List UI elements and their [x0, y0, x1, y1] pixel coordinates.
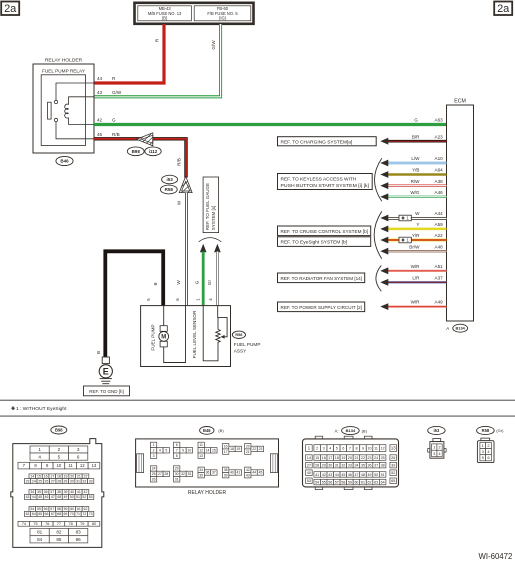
svg-text:34: 34: [199, 468, 203, 472]
wire label R: [155, 38, 160, 42]
svg-text:44: 44: [335, 473, 339, 477]
svg-text:REF. TO CRUISE CONTROL SYSTEM: REF. TO CRUISE CONTROL SYSTEM [b]: [281, 229, 369, 235]
svg-text:L/W: L/W: [411, 156, 420, 161]
wire L/R A37: [380, 275, 446, 285]
svg-text:45: 45: [97, 132, 103, 137]
svg-text:53: 53: [89, 495, 93, 499]
svg-text:A44: A44: [435, 211, 444, 216]
wire motor top to pin 5: [163, 306, 165, 326]
svg-text:10: 10: [187, 449, 191, 453]
svg-text:4: 4: [159, 449, 161, 453]
ECM box: [447, 99, 474, 322]
svg-text:B98: B98: [55, 427, 63, 432]
svg-text:51: 51: [381, 473, 385, 477]
svg-text:45: 45: [341, 473, 345, 477]
page label 2a top-right: [494, 2, 512, 16]
svg-text:15: 15: [315, 456, 319, 460]
svg-text:42: 42: [246, 468, 250, 472]
svg-text:29: 29: [322, 463, 326, 467]
svg-text:1: 1: [153, 443, 155, 447]
connector oval i112: [145, 147, 161, 156]
svg-text:A46: A46: [435, 190, 444, 195]
separator line lower: [0, 415, 515, 417]
connector B134 labels: [334, 427, 367, 435]
svg-text:7: 7: [349, 446, 351, 450]
svg-text:R58: R58: [165, 187, 174, 192]
svg-text:i112: i112: [149, 149, 158, 154]
svg-text:R58: R58: [235, 333, 242, 337]
fuse box block (M/B and F/B): [135, 3, 254, 24]
svg-text:13: 13: [92, 463, 97, 468]
svg-text:15: 15: [212, 449, 216, 453]
svg-text:23: 23: [26, 479, 30, 483]
svg-text:REF. TO FUEL GAUGE: REF. TO FUEL GAUGE: [205, 183, 210, 230]
wire label G: [194, 280, 199, 284]
svg-text:23: 23: [368, 456, 372, 460]
svg-text:37: 37: [212, 471, 216, 475]
svg-text:24: 24: [32, 479, 36, 483]
ref box eyesight: [278, 237, 371, 247]
svg-text:PUSH BUTTON START SYSTEM [i] [: PUSH BUTTON START SYSTEM [i] [k]: [281, 183, 370, 189]
svg-text:43: 43: [328, 473, 332, 477]
relay coil: [65, 97, 94, 125]
svg-text:59: 59: [64, 507, 68, 511]
svg-text:55: 55: [322, 480, 326, 484]
wire label B (near ground): [96, 351, 101, 354]
svg-text:83: 83: [76, 530, 82, 535]
svg-text:2a: 2a: [4, 3, 17, 15]
svg-text:16: 16: [224, 444, 228, 448]
svg-text:64: 64: [381, 480, 385, 484]
svg-text:63: 63: [26, 512, 30, 516]
inline connector symbol B98/i112: [137, 132, 157, 148]
svg-text:REF. TO KEYLESS ACCESS WITH: REF. TO KEYLESS ACCESS WITH: [281, 176, 357, 182]
svg-text:Y/R: Y/R: [412, 233, 420, 238]
svg-text:56: 56: [44, 507, 48, 511]
svg-text:40: 40: [70, 490, 74, 494]
wire sensor pin 1 to resistor bottom: [203, 306, 218, 361]
svg-text:Br/W: Br/W: [409, 244, 420, 249]
connector B46 body: [136, 439, 279, 487]
svg-text:10: 10: [57, 463, 62, 468]
wire Br/W A48: [380, 244, 446, 254]
svg-text:6: 6: [342, 446, 344, 450]
ref box cruise control: [278, 226, 371, 236]
svg-text:72: 72: [82, 512, 86, 516]
svg-text:18: 18: [230, 447, 234, 451]
svg-text:42: 42: [322, 473, 326, 477]
svg-text:31: 31: [335, 463, 339, 467]
connector R58 pin grid: [480, 443, 492, 461]
svg-text:(Gr): (Gr): [496, 428, 504, 433]
wire relay contact bottom to pin 45: [56, 122, 94, 139]
svg-text:18: 18: [57, 475, 61, 479]
svg-text:80: 80: [92, 522, 96, 526]
connector B46 caption RELAY HOLDER: [188, 490, 227, 496]
wire Y/B A64: [380, 168, 446, 178]
svg-text:68: 68: [57, 512, 61, 516]
svg-text:30: 30: [70, 479, 74, 483]
svg-text:B98: B98: [132, 149, 141, 154]
svg-text:71: 71: [76, 512, 80, 516]
page label 2a top-left: [1, 2, 19, 16]
svg-text:39: 39: [391, 464, 395, 468]
ref box charging system: [278, 137, 377, 146]
fuel pump relay box: [41, 69, 86, 146]
wire Gr (fuel gauge arrow to pump pin 4): [217, 252, 219, 306]
svg-text:47: 47: [354, 473, 358, 477]
svg-text:41: 41: [315, 473, 319, 477]
connector oval R58 (pump assy): [232, 331, 245, 338]
connector oval B98: [127, 147, 144, 156]
svg-text:R58: R58: [482, 428, 490, 433]
svg-text:B: B: [153, 282, 158, 285]
svg-text:Y: Y: [416, 222, 419, 227]
svg-text:16: 16: [322, 456, 326, 460]
wire R (fuse MB-43 to relay pin 44): [94, 24, 164, 83]
svg-text:2a: 2a: [497, 3, 510, 15]
relay holder outer box: [33, 58, 94, 154]
svg-text:24: 24: [152, 467, 156, 471]
inline connector symbol i53/R58: [176, 176, 195, 196]
svg-text:59: 59: [348, 480, 352, 484]
wire motor bottom loop to pin 6: [164, 306, 186, 363]
svg-text:57: 57: [335, 480, 339, 484]
svg-text:3: 3: [77, 447, 80, 452]
svg-text:26: 26: [45, 479, 49, 483]
svg-text:9: 9: [362, 446, 364, 450]
svg-text:62: 62: [368, 480, 372, 484]
svg-text:19: 19: [64, 475, 68, 479]
svg-text:67: 67: [51, 512, 55, 516]
svg-text:9: 9: [182, 449, 184, 453]
label FUEL PUMP ASSY: [234, 342, 261, 353]
svg-text:2: 2: [153, 449, 155, 453]
svg-text:E: E: [103, 367, 109, 377]
svg-text:56: 56: [328, 480, 332, 484]
svg-text:REF. TO CHARGING SYSTEM[a]: REF. TO CHARGING SYSTEM[a]: [281, 139, 353, 145]
connector B134 body: [303, 436, 399, 489]
svg-text:39: 39: [64, 490, 68, 494]
footer WI-60472: [479, 552, 513, 561]
svg-text:REF. TO POWER SUPPLY CIRCUIT [: REF. TO POWER SUPPLY CIRCUIT [2]: [281, 305, 363, 311]
svg-text:45: 45: [38, 495, 42, 499]
motor M fuel pump: [159, 326, 169, 347]
svg-text:W/R: W/R: [411, 300, 421, 305]
svg-text:FUEL LEVEL SENSOR: FUEL LEVEL SENSOR: [192, 310, 197, 358]
svg-text:13: 13: [391, 446, 396, 451]
wire label B (near pump): [153, 282, 158, 285]
svg-text:60: 60: [354, 480, 358, 484]
svg-text:62: 62: [84, 507, 88, 511]
svg-text:17: 17: [50, 475, 54, 479]
connector i53 body: [428, 439, 446, 459]
wire R/W A38: [380, 179, 446, 189]
svg-text:8: 8: [355, 446, 357, 450]
connector R58 body: [477, 438, 494, 463]
svg-text:73: 73: [89, 512, 93, 516]
svg-text:26: 26: [391, 456, 395, 460]
ref box keyless access: [278, 174, 373, 190]
svg-text:21: 21: [354, 456, 358, 460]
svg-text:35: 35: [199, 473, 203, 477]
svg-text:48: 48: [361, 473, 365, 477]
svg-text:64: 64: [32, 512, 36, 516]
svg-text:36: 36: [368, 463, 372, 467]
svg-text:36: 36: [44, 490, 48, 494]
svg-text:A49: A49: [435, 300, 444, 305]
svg-text:10: 10: [368, 446, 372, 450]
wire W (connector to fuel pump pin 6): [186, 193, 188, 306]
wire label W lower: [176, 280, 181, 285]
wire G (relay pin 42 to ECM A63): [94, 123, 447, 126]
svg-text:6: 6: [77, 454, 80, 459]
svg-text:8: 8: [176, 454, 178, 458]
svg-text:29: 29: [63, 479, 67, 483]
svg-text:G/W: G/W: [112, 90, 122, 95]
relay armature bar: [48, 102, 52, 119]
svg-text:B46: B46: [60, 159, 69, 164]
svg-text:6: 6: [176, 443, 178, 447]
connector B98 pin grid: [18, 446, 100, 543]
connector R58 oval: [477, 426, 504, 434]
svg-text:61: 61: [361, 480, 365, 484]
svg-text:35: 35: [37, 490, 41, 494]
connector B98 oval: [51, 426, 67, 434]
wire G (fuel gauge arrow to pump pin 1): [202, 252, 205, 306]
svg-text:i53: i53: [434, 428, 440, 433]
ref box fuel gauge system: [203, 177, 219, 233]
svg-text:50: 50: [374, 473, 378, 477]
svg-text:22: 22: [361, 456, 365, 460]
svg-text:21: 21: [77, 475, 81, 479]
svg-text:82: 82: [56, 530, 62, 535]
svg-text:11: 11: [199, 443, 203, 447]
wire W/R A49: [380, 300, 446, 310]
svg-text:44: 44: [97, 76, 103, 81]
ground symbol E: [99, 365, 112, 384]
svg-text:33: 33: [187, 472, 191, 476]
svg-text:63: 63: [374, 480, 378, 484]
svg-text:22: 22: [252, 447, 256, 451]
wire Y A59: [380, 222, 446, 232]
svg-text:34: 34: [30, 490, 34, 494]
svg-text:32: 32: [82, 479, 86, 483]
svg-text:46: 46: [348, 473, 352, 477]
svg-text:24: 24: [374, 456, 378, 460]
svg-text:48: 48: [57, 495, 61, 499]
svg-text:W/G: W/G: [410, 190, 420, 195]
svg-text:25: 25: [152, 472, 156, 476]
svg-text:42: 42: [97, 118, 103, 123]
svg-text:39: 39: [224, 473, 228, 477]
svg-text:W/R: W/R: [411, 264, 421, 269]
svg-text:12: 12: [381, 446, 385, 450]
svg-text:RELAY HOLDER: RELAY HOLDER: [188, 490, 227, 496]
connector B46 oval: [200, 427, 225, 435]
svg-text:3: 3: [323, 446, 325, 450]
svg-text:(B): (B): [362, 428, 368, 433]
svg-text:77: 77: [57, 522, 61, 526]
connector oval B46: [56, 156, 73, 165]
svg-text:19: 19: [341, 456, 345, 460]
wire label G A63 (ECM): [414, 117, 443, 122]
svg-text:W: W: [415, 211, 420, 216]
svg-text:58: 58: [57, 507, 61, 511]
svg-text:32: 32: [181, 472, 185, 476]
connector i53 pin grid: [432, 444, 443, 457]
svg-text:M: M: [161, 335, 166, 341]
svg-text:29: 29: [175, 467, 179, 471]
svg-text:60: 60: [70, 507, 74, 511]
svg-text:52: 52: [391, 471, 395, 475]
svg-text:25: 25: [38, 479, 42, 483]
svg-text:65: 65: [38, 512, 42, 516]
star1 box on A44: [399, 215, 411, 221]
svg-text:ECM: ECM: [454, 99, 466, 105]
wire label W: [177, 200, 182, 205]
wire W A44: [380, 211, 446, 221]
svg-text:Gr: Gr: [207, 279, 212, 285]
svg-text:14: 14: [307, 456, 311, 460]
svg-text:A37: A37: [435, 275, 444, 280]
label FUEL PUMP: [150, 324, 155, 350]
wire W/R A51: [380, 264, 446, 274]
svg-text:14: 14: [206, 449, 210, 453]
svg-text:20: 20: [70, 475, 74, 479]
svg-text:W: W: [177, 200, 182, 205]
svg-text:31: 31: [76, 479, 80, 483]
svg-text:44: 44: [32, 495, 36, 499]
svg-text:44: 44: [252, 471, 256, 475]
svg-text:G: G: [194, 280, 199, 284]
svg-text:30: 30: [175, 472, 179, 476]
svg-text:55: 55: [37, 507, 41, 511]
svg-text:86: 86: [76, 537, 82, 542]
svg-text:FUEL PUMP RELAY: FUEL PUMP RELAY: [42, 69, 86, 74]
wire label R/B: [177, 158, 182, 166]
ref box power supply: [278, 302, 365, 312]
svg-text:26: 26: [152, 478, 156, 482]
svg-text:4: 4: [329, 446, 331, 450]
svg-text:49: 49: [368, 473, 372, 477]
svg-text:1: 1: [38, 447, 41, 452]
svg-text:3: 3: [153, 454, 155, 458]
svg-text:B134: B134: [346, 428, 356, 433]
svg-text:33: 33: [348, 463, 352, 467]
svg-text:19: 19: [236, 447, 240, 451]
svg-text:REF. TO RADIATOR FAN SYSTEM [1: REF. TO RADIATOR FAN SYSTEM [14]: [281, 276, 363, 282]
svg-text:17: 17: [328, 456, 332, 460]
pump pin 5: [146, 298, 151, 301]
svg-text:G/W: G/W: [211, 40, 216, 50]
svg-text:ASSY: ASSY: [234, 348, 247, 353]
ref box gnd: [84, 386, 130, 396]
wire G/W (fuse FB-60 to relay pin 43): [94, 24, 222, 98]
svg-text:12: 12: [80, 463, 85, 468]
svg-text:43: 43: [26, 495, 30, 499]
svg-text:35: 35: [361, 463, 365, 467]
svg-text:G: G: [112, 118, 116, 123]
svg-text:16: 16: [44, 475, 48, 479]
svg-text:B134: B134: [456, 326, 466, 331]
svg-text:A:: A:: [334, 428, 338, 433]
svg-text:A23: A23: [435, 134, 444, 139]
connector oval i53: [162, 175, 178, 184]
svg-text:38: 38: [57, 490, 61, 494]
connector i53 oval: [428, 426, 445, 434]
svg-text:27: 27: [51, 479, 55, 483]
svg-text:34: 34: [354, 463, 358, 467]
svg-text:A63: A63: [435, 117, 444, 122]
svg-text:79: 79: [80, 522, 84, 526]
wire relay contact top to pin 44: [56, 83, 94, 100]
svg-text:R/W: R/W: [411, 179, 421, 184]
pump pin 6: [175, 298, 180, 301]
svg-text:4: 4: [38, 454, 41, 459]
svg-text:46: 46: [45, 495, 49, 499]
relay pin 43 label: [97, 90, 122, 95]
svg-text:A: A: [446, 326, 449, 331]
svg-text:31: 31: [175, 478, 179, 482]
wire B (pump pin 5 to ground): [105, 251, 163, 357]
connector B46 pin grid: [150, 442, 263, 482]
svg-text:28: 28: [57, 479, 61, 483]
svg-text:32: 32: [341, 463, 345, 467]
separator line upper: [0, 399, 515, 401]
svg-text:78: 78: [68, 522, 72, 526]
svg-text:69: 69: [63, 512, 67, 516]
svg-text:17: 17: [224, 450, 228, 454]
brace keyless group: [375, 158, 382, 201]
svg-text:52: 52: [82, 495, 86, 499]
svg-text:FUEL PUMP: FUEL PUMP: [234, 342, 261, 347]
svg-text:5: 5: [336, 446, 338, 450]
relay pin 45 label: [97, 132, 120, 137]
connector B134 pin grid: [306, 445, 397, 485]
svg-text:76: 76: [45, 522, 49, 526]
svg-text:11: 11: [68, 463, 73, 468]
svg-text:WI-60472: WI-60472: [479, 552, 513, 561]
ECM connector label A B134: [446, 324, 467, 332]
svg-text:27: 27: [158, 472, 162, 476]
pump pin 4: [208, 298, 213, 301]
svg-text:43: 43: [246, 473, 250, 477]
svg-text:G: G: [414, 117, 418, 122]
svg-text:5: 5: [165, 449, 167, 453]
svg-text:51: 51: [76, 495, 80, 499]
svg-text:74: 74: [22, 522, 26, 526]
wire B/R A23: [380, 134, 446, 144]
svg-text:1 : WITHOUT EyeSight: 1 : WITHOUT EyeSight: [16, 406, 67, 412]
svg-text:42: 42: [84, 490, 88, 494]
connector oval R58: [160, 185, 177, 194]
svg-text:R/B: R/B: [112, 132, 120, 137]
svg-text:A51: A51: [435, 264, 444, 269]
brace radiator group: [376, 265, 381, 291]
ground terminal square: [102, 357, 109, 364]
star1 box on A22: [399, 237, 411, 243]
svg-text:i53: i53: [166, 177, 173, 182]
svg-text:Y/B: Y/B: [412, 168, 419, 173]
svg-text:41: 41: [236, 471, 240, 475]
brace cruise/eyesight group: [374, 211, 382, 258]
svg-text:W: W: [176, 280, 181, 285]
arrow up Gr: [214, 244, 221, 253]
svg-text:FUEL PUMP: FUEL PUMP: [150, 324, 155, 350]
wire sensor pin 4 to wiper arrow: [218, 306, 227, 339]
fuel pump assembly box: [141, 306, 231, 367]
